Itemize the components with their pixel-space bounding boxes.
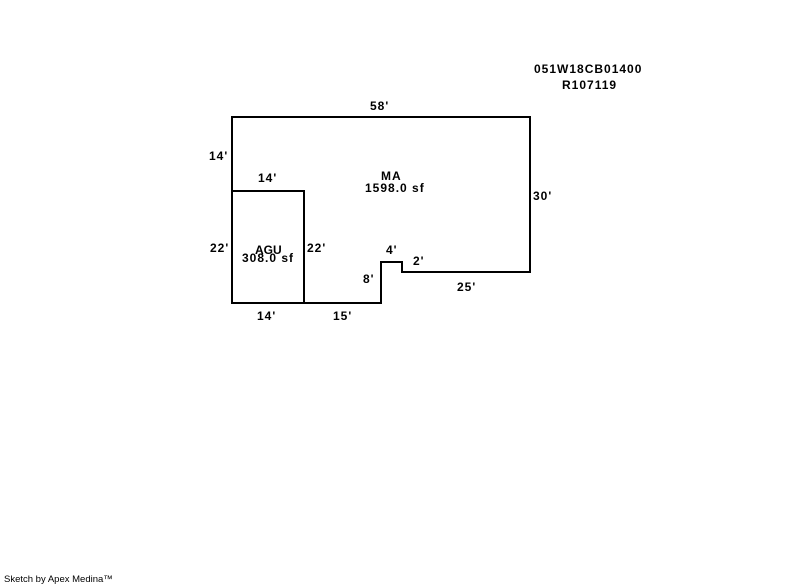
notch west wall 8' [380, 261, 382, 304]
dimension label 14' bottom [257, 310, 276, 322]
dimension label 22' left [210, 242, 229, 254]
dimension label 22' AGU right [307, 242, 326, 254]
north wall 58' [231, 116, 531, 118]
area name label MA [381, 170, 402, 182]
dimension label 58' top [370, 100, 389, 112]
south wall 14'+15' [231, 302, 382, 304]
dimension label 8' notch [363, 273, 375, 285]
area size label 308.0 sf [242, 252, 294, 264]
dimension label 2' notch [413, 255, 425, 267]
footer credit Sketch by Apex Medina [4, 575, 113, 585]
dimension label 30' right [533, 190, 552, 202]
AGU right partition wall 22' [303, 190, 305, 304]
dimension label 4' notch [386, 244, 398, 256]
notch top wall 4' [380, 261, 403, 263]
AGU top partition wall 14' [231, 190, 305, 192]
dimension label 25' bottom right [457, 281, 476, 293]
record id label R107119 [562, 79, 617, 91]
notch riser wall 2' [401, 261, 403, 273]
southeast wall 25' [401, 271, 531, 273]
dimension label 15' bottom [333, 310, 352, 322]
west wall 14'+22' [231, 116, 233, 304]
area name label AGU [255, 244, 282, 256]
east wall 30' [529, 116, 531, 273]
area size label 1598.0 sf [365, 182, 425, 194]
parcel id label 051W18CB01400 [534, 63, 642, 75]
dimension label 14' upper left [209, 150, 228, 162]
dimension label 14' AGU top [258, 172, 277, 184]
